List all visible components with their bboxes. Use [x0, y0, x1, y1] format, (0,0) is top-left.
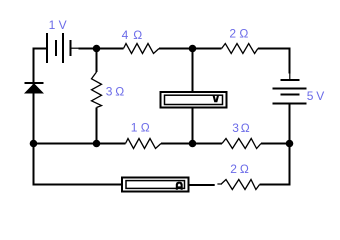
lead 2Ω bottom left [217, 183, 221, 185]
resistor R3 3Ω vertical [92, 72, 102, 108]
wire left rail (battery to diode to ammeter) [34, 49, 122, 185]
node E junction bottom-middle [189, 140, 197, 148]
node C junction bottom-left [30, 140, 38, 148]
battery V1 1V [47, 33, 71, 63]
wire node C to 1Ω [34, 143, 126, 145]
resistor R2 2Ω top [222, 44, 258, 54]
svg-text:3Ω: 3Ω [232, 121, 250, 135]
wire 1Ω to node E [161, 143, 222, 145]
wire ammeter to 2Ω [190, 184, 215, 186]
wire between 4Ω and 2Ω [159, 48, 222, 50]
resistor R5 3Ω bottom [222, 139, 261, 149]
wire from node A down to 3Ω [96, 49, 98, 73]
wire node B down to voltmeter [192, 49, 194, 92]
node D junction bottom x=96.5 [93, 140, 101, 148]
node F junction bottom-right [286, 140, 294, 148]
svg-text:2Ω: 2Ω [230, 162, 249, 176]
battery V2 5V [273, 80, 307, 104]
diode D1 [25, 83, 44, 93]
svg-text:3Ω: 3Ω [106, 85, 125, 99]
ammeter U2 [122, 178, 189, 192]
lead battery 1V right [71, 47, 79, 49]
node A junction top-left [93, 45, 101, 53]
svg-text:5V: 5V [307, 89, 325, 103]
voltmeter U1 [161, 92, 227, 108]
wire battery bottom to node D [289, 104, 291, 144]
resistor R4 1Ω [126, 139, 162, 149]
wire 3Ω to node F [261, 143, 290, 145]
lead 5V battery top [289, 73, 291, 81]
svg-text:2Ω: 2Ω [229, 27, 248, 41]
svg-text:1V: 1V [49, 18, 67, 32]
resistor R6 2Ω bottom [221, 180, 260, 190]
wire voltmeter down to node E [192, 109, 194, 144]
wire battery to 4Ω through node A [79, 48, 124, 50]
wire node F down and left to 2Ω [260, 144, 290, 185]
svg-text:1Ω: 1Ω [131, 121, 150, 135]
resistor R1 4Ω [124, 44, 160, 54]
wire 3Ω to node C [96, 108, 98, 144]
wire 2Ω to top right corner down to battery [258, 49, 290, 74]
svg-text:4Ω: 4Ω [122, 28, 143, 42]
node B junction top-middle [189, 45, 197, 53]
